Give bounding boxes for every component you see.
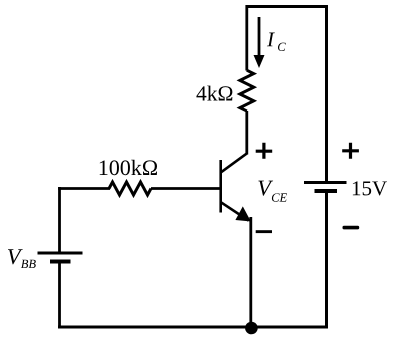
battery VBB short plate (-) bbox=[50, 260, 71, 264]
polarity + of VCE bbox=[256, 143, 273, 159]
label VBB bbox=[8, 249, 23, 264]
wire: left rail lower bbox=[58, 263, 61, 329]
label 4kOhm bbox=[196, 86, 232, 101]
transistor Q1 emitter arrowhead bbox=[236, 207, 250, 221]
resistor RC 4k zigzag bbox=[240, 70, 254, 111]
wire: left rail upper bbox=[58, 187, 61, 252]
wire: base wire right segment bbox=[151, 187, 221, 190]
label VCE bbox=[258, 181, 273, 196]
label IC bbox=[267, 33, 275, 47]
wire: emitter vertical bbox=[249, 217, 252, 328]
resistor RB 100k zigzag bbox=[109, 182, 151, 195]
transistor Q1 emitter diagonal bbox=[221, 202, 249, 220]
label 100kOhm bbox=[100, 160, 157, 175]
current arrow IC head bbox=[254, 55, 265, 68]
battery V2 long plate (+) bbox=[304, 181, 347, 184]
polarity - of 15V battery bbox=[343, 226, 360, 230]
node: emitter/ground junction dot bbox=[245, 322, 258, 335]
wire: base wire left segment bbox=[58, 187, 110, 190]
battery VBB long plate (+) bbox=[38, 252, 83, 255]
wire: top rail bbox=[246, 5, 329, 8]
wire: right rail upper bbox=[325, 5, 328, 181]
transistor Q1 base bar bbox=[219, 160, 222, 213]
battery V2 short plate (-) bbox=[315, 189, 338, 193]
wire: collector vertical above resistor bbox=[245, 5, 248, 71]
polarity - of VCE bbox=[256, 230, 272, 233]
current arrow IC stem bbox=[258, 17, 261, 57]
wire: right rail lower bbox=[325, 193, 328, 329]
transistor Q1 collector diagonal bbox=[221, 153, 247, 172]
wire: bottom rail bbox=[58, 326, 328, 329]
wire: collector vertical below resistor bbox=[245, 111, 248, 155]
polarity + of 15V battery bbox=[342, 143, 359, 159]
label 15V bbox=[353, 181, 387, 195]
